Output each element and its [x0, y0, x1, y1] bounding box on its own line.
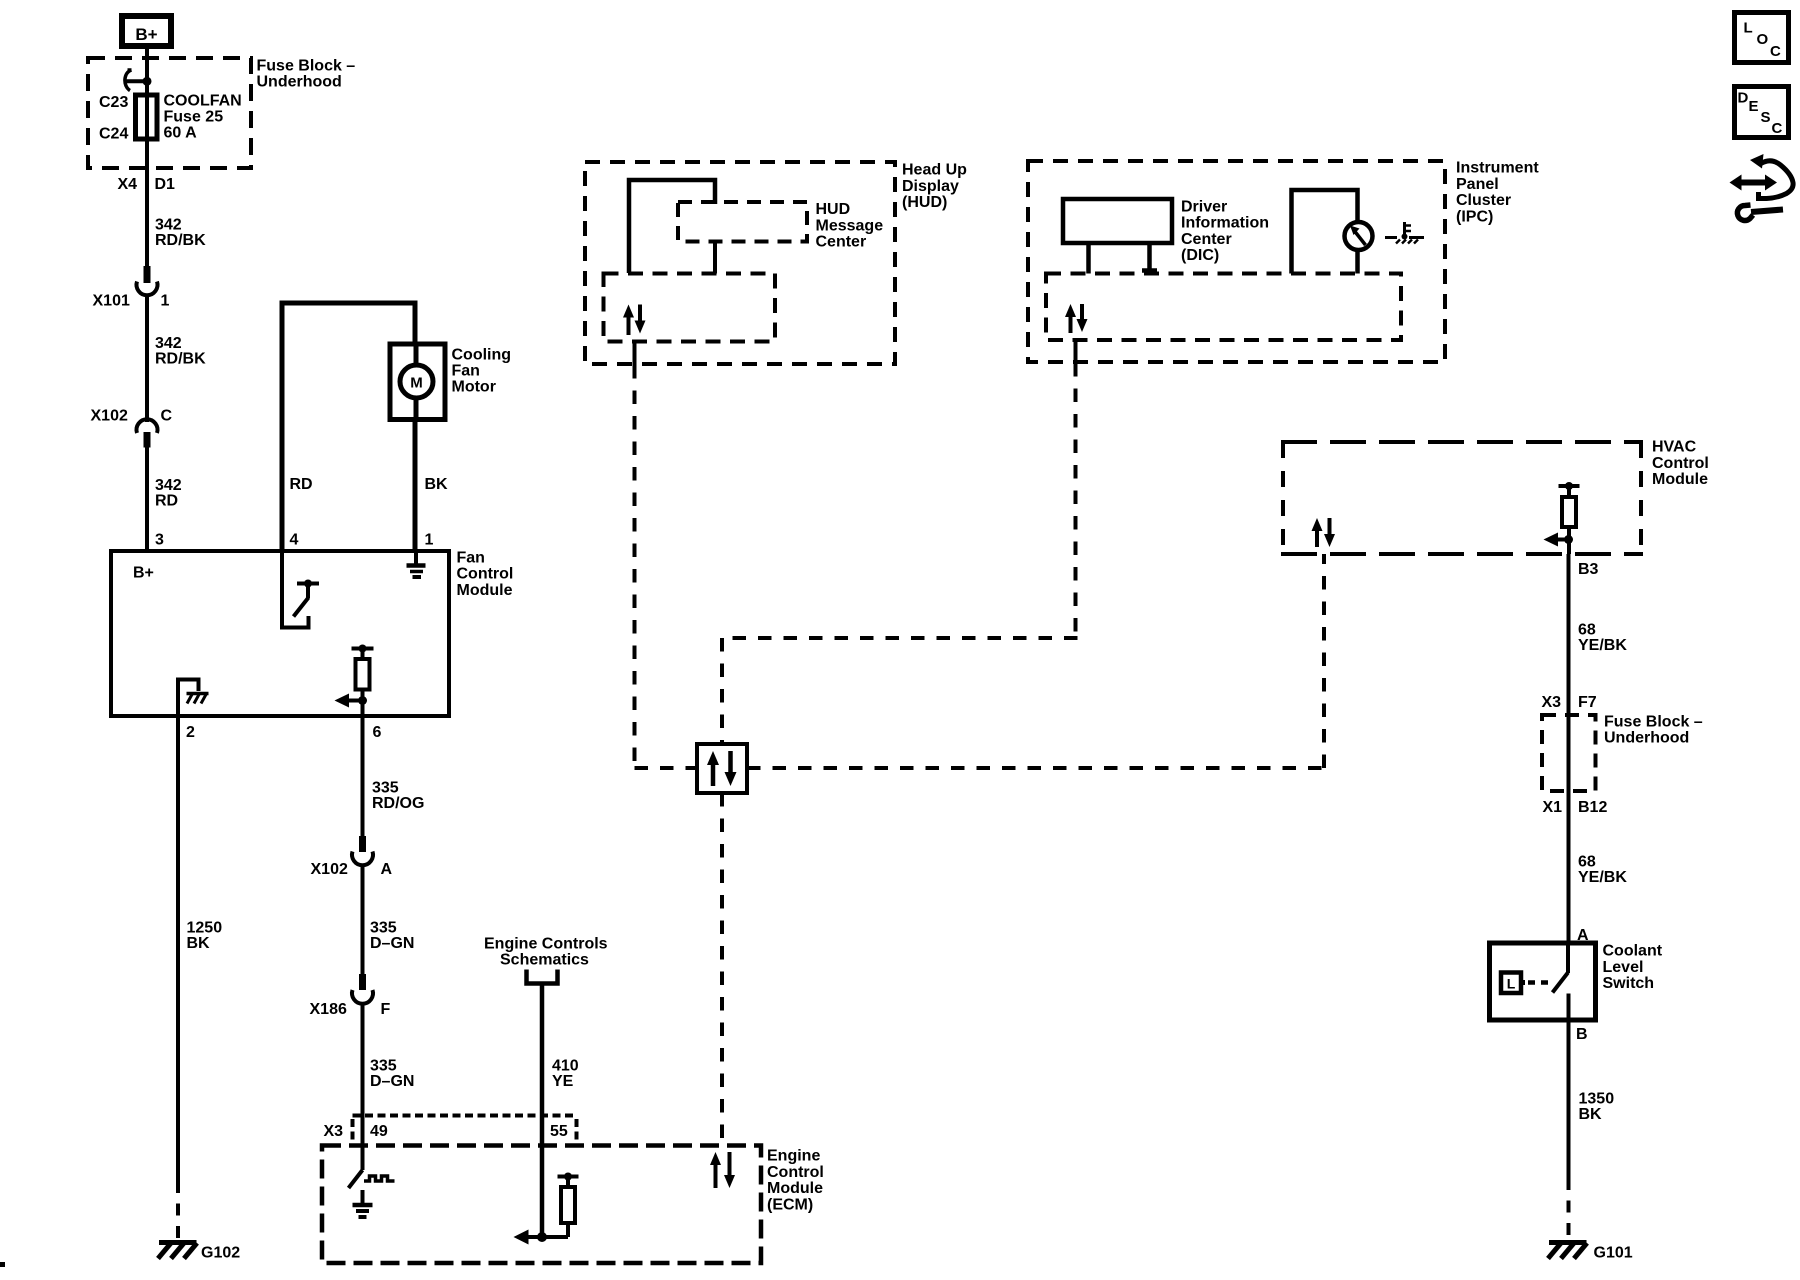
- svg-text:342: 342: [155, 477, 182, 494]
- svg-text:X101: X101: [93, 293, 130, 310]
- svg-text:(DIC): (DIC): [1181, 247, 1219, 264]
- svg-text:49: 49: [370, 1123, 388, 1140]
- svg-text:X1: X1: [1543, 799, 1563, 816]
- wire switch to G101 (1350 BK): [1567, 1020, 1571, 1178]
- svg-text:4: 4: [290, 532, 299, 549]
- svg-text:B3: B3: [1578, 561, 1599, 578]
- IPC gauge circle + needle: [1345, 222, 1373, 250]
- svg-text:335: 335: [370, 1058, 397, 1075]
- svg-text:6: 6: [373, 724, 382, 741]
- off-page connector bracket: [527, 970, 558, 984]
- svg-text:Display: Display: [902, 178, 959, 195]
- svg-text:X102: X102: [91, 408, 128, 425]
- coolant level switch S1 box: [1490, 943, 1596, 1020]
- svg-text:A: A: [381, 861, 393, 878]
- HUD internal serial dashed box: [604, 274, 776, 342]
- svg-text:C23: C23: [99, 94, 128, 111]
- svg-text:E: E: [1749, 98, 1759, 115]
- ECM connector strip X3 (dotted): [353, 1116, 577, 1141]
- IPC serial data arrows: [1065, 304, 1088, 333]
- svg-text:Control: Control: [1652, 455, 1709, 472]
- svg-text:O: O: [1757, 31, 1769, 48]
- ground G101: [1548, 1243, 1587, 1259]
- HVAC control module dashed box: [1281, 442, 1643, 554]
- wire IPC serial data (dashed): [1074, 363, 1078, 638]
- svg-text:COOLFAN: COOLFAN: [164, 93, 242, 110]
- svg-text:L: L: [1744, 20, 1753, 37]
- svg-text:Center: Center: [816, 234, 867, 251]
- svg-text:HVAC: HVAC: [1652, 439, 1697, 456]
- internal chassis ground (pin 2): [178, 680, 209, 717]
- svg-text:3: 3: [155, 532, 164, 549]
- svg-text:HUD: HUD: [816, 201, 851, 218]
- svg-text:C: C: [1770, 43, 1781, 60]
- svg-text:G101: G101: [1594, 1245, 1633, 1262]
- svg-text:Fuse 25: Fuse 25: [164, 109, 224, 126]
- cooling fan motor loop wire RD (pin 4 to motor): [282, 303, 415, 551]
- svg-text:L: L: [1507, 976, 1516, 992]
- svg-text:S: S: [1761, 109, 1771, 126]
- svg-text:Underhood: Underhood: [257, 74, 342, 91]
- wire pin2 to G102 (1250 BK): [176, 716, 180, 1181]
- svg-text:Driver: Driver: [1181, 198, 1227, 215]
- wire bracket to ECM pin 55 (410 YE): [540, 984, 545, 1238]
- svg-text:Fan: Fan: [452, 363, 480, 380]
- svg-text:Fan: Fan: [457, 550, 485, 567]
- svg-text:342: 342: [155, 217, 182, 234]
- page edge mark: [0, 1262, 5, 1267]
- wire pin6 to X102-A (335 RD/OG): [361, 716, 365, 838]
- connector X101 pin 1: [137, 266, 158, 295]
- svg-text:Fuse Block –: Fuse Block –: [1604, 714, 1703, 731]
- svg-text:Center: Center: [1181, 231, 1232, 248]
- svg-text:X3: X3: [1542, 694, 1562, 711]
- svg-text:Engine Controls: Engine Controls: [484, 936, 608, 953]
- connector X102 pin A: [352, 836, 373, 865]
- svg-text:YE: YE: [552, 1073, 574, 1090]
- fuse COOLFAN 25 60A body: [136, 95, 158, 139]
- svg-text:C24: C24: [99, 126, 128, 143]
- svg-text:1250: 1250: [187, 920, 223, 937]
- svg-text:F7: F7: [1578, 694, 1597, 711]
- ECM internal ground: [353, 1190, 373, 1217]
- svg-text:Module: Module: [1652, 471, 1708, 488]
- svg-text:RD/OG: RD/OG: [372, 795, 424, 812]
- svg-text:1: 1: [161, 293, 170, 310]
- svg-text:(IPC): (IPC): [1456, 208, 1493, 225]
- HVAC serial data arrows: [1312, 518, 1336, 547]
- svg-text:Message: Message: [816, 217, 884, 234]
- svg-text:BK: BK: [425, 476, 449, 493]
- IPC internal serial dashed box: [1046, 274, 1401, 341]
- svg-text:Cooling: Cooling: [452, 347, 512, 364]
- svg-text:BK: BK: [1579, 1106, 1603, 1123]
- svg-text:C: C: [1772, 120, 1783, 137]
- svg-text:335: 335: [372, 780, 399, 797]
- DIC display rectangle: [1063, 199, 1172, 243]
- svg-text:Fuse Block –: Fuse Block –: [257, 58, 356, 75]
- svg-text:Engine: Engine: [767, 1148, 820, 1165]
- svg-text:Cluster: Cluster: [1456, 192, 1511, 209]
- ECM internal resistor + arrow (pin 55): [521, 1177, 579, 1238]
- svg-text:RD/BK: RD/BK: [155, 232, 206, 249]
- svg-text:G102: G102: [201, 1245, 240, 1262]
- junction box arrows: [707, 751, 737, 786]
- wire X101 to X102 (342 RD/BK): [145, 295, 149, 422]
- svg-text:55: 55: [550, 1123, 568, 1140]
- svg-text:68: 68: [1578, 622, 1596, 639]
- svg-text:68: 68: [1578, 854, 1596, 871]
- svg-text:Information: Information: [1181, 215, 1269, 232]
- wire X186-F to ECM pin 49 (335 D-GN): [361, 1003, 365, 1171]
- svg-text:Schematics: Schematics: [500, 952, 589, 969]
- svg-text:RD: RD: [155, 493, 178, 510]
- svg-text:Panel: Panel: [1456, 176, 1499, 193]
- HUD serial data arrows: [623, 305, 646, 336]
- DESC legend box: [1735, 87, 1789, 138]
- svg-text:X186: X186: [310, 1001, 347, 1018]
- connector X102 pin C: [137, 419, 158, 447]
- HUD display loop wire: [629, 180, 715, 273]
- svg-text:Control: Control: [767, 1164, 824, 1181]
- svg-text:X4: X4: [118, 176, 138, 193]
- internal resistor + arrow (pin 6): [341, 649, 374, 717]
- ECM internal switch + element (pin 49): [349, 1170, 395, 1188]
- svg-text:BK: BK: [187, 935, 211, 952]
- svg-text:342: 342: [155, 335, 182, 352]
- wire HVAC to fuse block (68 YE/BK): [1567, 554, 1571, 716]
- svg-text:F: F: [381, 1001, 391, 1018]
- wire junction to ECM (dashed): [720, 793, 724, 1145]
- svg-text:RD/BK: RD/BK: [155, 351, 206, 368]
- svg-text:(ECM): (ECM): [767, 1196, 813, 1213]
- svg-text:Motor: Motor: [452, 379, 496, 396]
- svg-text:X3: X3: [324, 1123, 344, 1140]
- svg-text:Module: Module: [767, 1180, 823, 1197]
- wire motor to pin 1 (BK): [413, 344, 418, 551]
- IPC fuel level symbol: [1385, 222, 1424, 244]
- cooling fan motor M1: [390, 344, 445, 420]
- svg-text:B+: B+: [133, 565, 154, 582]
- svg-text:(HUD): (HUD): [902, 194, 947, 211]
- svg-text:C: C: [161, 408, 173, 425]
- svg-text:M: M: [410, 375, 423, 392]
- svg-text:1: 1: [425, 532, 434, 549]
- svg-text:Instrument: Instrument: [1456, 160, 1539, 177]
- IPC gauge box: [1292, 190, 1358, 274]
- LOC legend box: [1735, 13, 1789, 63]
- svg-text:YE/BK: YE/BK: [1578, 637, 1627, 654]
- serial data junction box: [697, 744, 747, 793]
- ground G102: [158, 1243, 197, 1259]
- DIC legs: [1086, 243, 1091, 274]
- internal switch (pin 4): [282, 551, 319, 628]
- svg-text:RD: RD: [290, 476, 313, 493]
- svg-text:B+: B+: [135, 25, 157, 44]
- diagnostic jump icon: [1730, 154, 1794, 220]
- wire X102 to fan control module pin 3 (342 RD): [145, 446, 149, 551]
- fan control module U1 box: [111, 551, 449, 716]
- svg-text:D–GN: D–GN: [370, 1073, 414, 1090]
- svg-text:1350: 1350: [1579, 1091, 1615, 1108]
- HUD message center dashed box: [678, 202, 807, 242]
- svg-text:335: 335: [370, 920, 397, 937]
- wire IPC to serial bus (solid stub): [1074, 340, 1078, 363]
- head up display HUD dashed box: [585, 162, 895, 364]
- connector X186 pin F: [352, 974, 373, 1004]
- battery B+ terminal: [122, 16, 171, 46]
- wire HUD serial data (dashed): [633, 365, 637, 770]
- wire message center to serial box: [713, 242, 717, 274]
- engine control module ECM dashed box: [322, 1146, 761, 1264]
- svg-text:Level: Level: [1603, 959, 1644, 976]
- svg-text:Switch: Switch: [1603, 975, 1655, 992]
- instrument panel cluster IPC dashed box: [1028, 161, 1445, 362]
- switch internals: [1501, 943, 1569, 1020]
- circuit breaker symbol in fuse block: [125, 70, 147, 91]
- svg-text:X102: X102: [311, 861, 348, 878]
- svg-text:D–GN: D–GN: [370, 935, 414, 952]
- svg-text:Module: Module: [457, 582, 513, 599]
- internal ground symbol (pin 1): [407, 551, 426, 577]
- HVAC internal resistor + arrow: [1551, 486, 1580, 554]
- fuse block underhood (right) dashed box: [1542, 715, 1596, 791]
- svg-text:Underhood: Underhood: [1604, 730, 1689, 747]
- svg-text:410: 410: [552, 1058, 579, 1075]
- svg-text:D: D: [1738, 90, 1749, 107]
- ECM serial data arrows: [710, 1152, 735, 1188]
- wire X102-A to X186-F (335 D-GN): [361, 864, 365, 976]
- svg-text:D1: D1: [155, 176, 176, 193]
- svg-text:Coolant: Coolant: [1603, 943, 1663, 960]
- wire HUD to serial bus (solid stub): [633, 342, 637, 366]
- svg-text:60 A: 60 A: [164, 125, 198, 142]
- svg-text:YE/BK: YE/BK: [1578, 869, 1627, 886]
- wire through fuse block: [1567, 715, 1571, 791]
- svg-text:Control: Control: [457, 566, 514, 583]
- wire fuse block to coolant level switch (68 YE/BK): [1567, 791, 1571, 943]
- wire B+ to X101 (342 RD/BK): [145, 46, 149, 268]
- svg-text:2: 2: [186, 724, 195, 741]
- svg-text:B: B: [1576, 1026, 1588, 1043]
- svg-text:B12: B12: [1578, 799, 1607, 816]
- junction dot at breaker: [143, 77, 152, 86]
- svg-text:Head Up: Head Up: [902, 162, 967, 179]
- wire junction to HVAC (dashed): [747, 766, 1324, 770]
- fuse block underhood (left) dashed box: [88, 58, 251, 168]
